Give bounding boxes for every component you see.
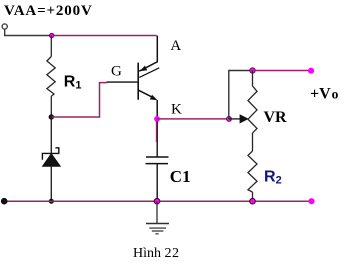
svg-text:Hình 22: Hình 22	[133, 246, 179, 261]
svg-text:VAA=+200V: VAA=+200V	[4, 3, 93, 19]
wiper arrowhead	[240, 114, 249, 123]
node top of R1	[50, 33, 54, 37]
zener diode D1	[42, 148, 60, 167]
terminal VAA (open circle)	[2, 24, 7, 29]
SCR Q1 second collector line	[139, 68, 159, 78]
potentiometer VR	[248, 71, 257, 134]
SCR Q1 cathode lead	[139, 90, 155, 98]
SCR Q1 bar	[137, 63, 139, 100]
node VR junction	[227, 116, 232, 121]
node zener bottom	[49, 199, 54, 204]
SCR Q1 cathode arrowhead	[150, 95, 158, 101]
wire VR top to +Vo terminal (magenta)	[253, 70, 312, 72]
ground bars	[146, 224, 169, 234]
capacitor C1 magenta overlay lead	[155, 121, 157, 142]
svg-text:+Vo: +Vo	[310, 86, 339, 103]
svg-text:A: A	[170, 38, 181, 54]
node R2 bottom	[250, 198, 256, 204]
zener diode D1 lead top	[50, 117, 52, 153]
node VR top	[250, 68, 255, 73]
SCR Q1 cathode lead vertical	[156, 100, 158, 117]
wiper arrow shaft	[229, 118, 240, 120]
wire K to VR junction (magenta)	[157, 118, 229, 120]
bottom bus wire (magenta)	[4, 200, 312, 202]
svg-text:C1: C1	[170, 167, 191, 186]
wire junction up to top rail (dark)	[229, 71, 253, 119]
node K	[154, 116, 160, 122]
node capacitor bottom	[154, 198, 160, 204]
resistor R2	[248, 151, 257, 201]
ground stem	[156, 201, 158, 223]
resistor R1	[47, 36, 55, 118]
zener diode D1 lead bottom	[50, 166, 52, 201]
terminal bottom-right (magenta dot)	[308, 198, 314, 204]
terminal +Vo (magenta dot)	[308, 68, 314, 74]
SCR Q1 anode arrowhead	[140, 66, 148, 72]
svg-text:K: K	[171, 102, 182, 118]
node R1 bottom / gate junction	[49, 114, 54, 119]
wire top rail to anode (magenta)	[52, 35, 157, 37]
SCR Q1 anode lead	[139, 36, 157, 72]
svg-text:VR: VR	[264, 109, 288, 126]
SCR Q1 gate lead	[107, 81, 138, 83]
capacitor C1 lead top (black with magenta overlay)	[156, 121, 158, 157]
capacitor C1 plates	[146, 157, 169, 164]
wire gate path (magenta)	[51, 83, 107, 117]
terminal bottom-left (black dot)	[1, 198, 8, 205]
svg-text:G: G	[111, 64, 122, 80]
capacitor C1 lead bottom	[156, 164, 158, 202]
wire VAA terminal to node top (gray)	[5, 29, 52, 35]
wire VR to R2	[252, 133, 254, 151]
